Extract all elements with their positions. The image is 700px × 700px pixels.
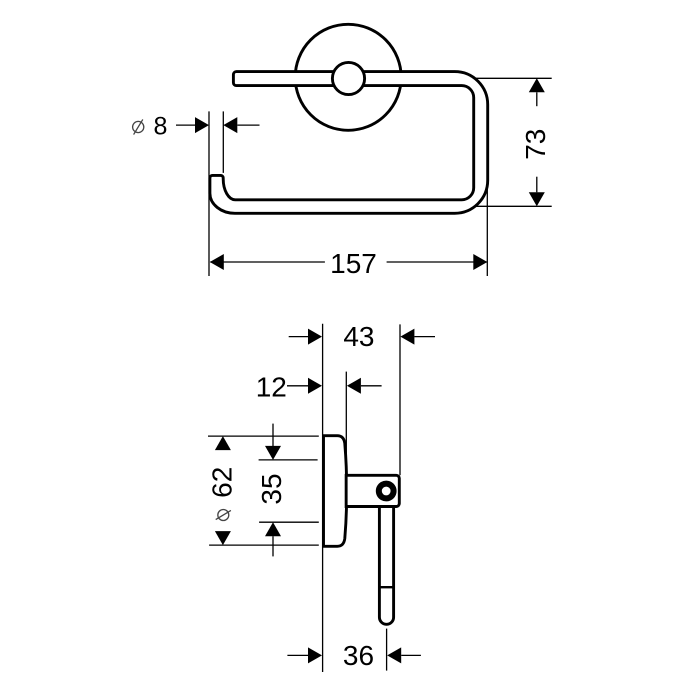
svg-text:73: 73 xyxy=(520,129,551,160)
dim line left segment xyxy=(210,261,325,263)
dimension 36 xyxy=(287,629,421,672)
left arrow xyxy=(210,254,224,270)
up arrow xyxy=(215,436,231,450)
roll holder rod (side view) xyxy=(379,507,393,625)
bottom arrow xyxy=(529,192,545,206)
bottom arrow (outside, pointing up) xyxy=(265,522,281,536)
pivot small circle xyxy=(332,62,364,94)
holder tube outline xyxy=(210,72,488,214)
ø symbol rotated xyxy=(218,510,229,521)
top extension line xyxy=(476,77,552,79)
bracket arm (side view) xyxy=(346,475,399,506)
down arrow xyxy=(215,531,231,545)
dimension 73 xyxy=(474,78,552,206)
top arrow xyxy=(529,78,545,92)
bottom extension line xyxy=(474,205,552,207)
dimension ø62 xyxy=(207,436,319,545)
extension line right of tube end (ø8) xyxy=(222,111,224,172)
right arrow xyxy=(473,254,487,270)
dimension 12 xyxy=(256,371,382,402)
rod joint line xyxy=(379,586,393,588)
rod centre extension line xyxy=(386,629,388,671)
leader line xyxy=(176,124,196,126)
line B top xyxy=(259,459,318,461)
svg-text:43: 43 xyxy=(343,321,374,352)
svg-text:12: 12 xyxy=(256,371,287,402)
top arrow (outside, pointing down) xyxy=(272,424,274,446)
wall line extension (left, long) xyxy=(322,324,324,672)
dimension 157 xyxy=(210,185,488,279)
dimension 35 xyxy=(256,424,319,557)
line A top xyxy=(208,435,319,437)
extension line bracket right xyxy=(399,324,401,475)
dimension ø8 xyxy=(133,112,260,140)
extension line left (ø8 / 157) xyxy=(208,111,210,276)
dimension 43 xyxy=(289,321,435,352)
svg-text:8: 8 xyxy=(154,112,168,140)
line D bottom xyxy=(209,544,319,546)
ø symbol xyxy=(133,121,144,132)
svg-text:35: 35 xyxy=(256,473,287,504)
svg-text:157: 157 xyxy=(330,248,377,279)
left arrow xyxy=(195,117,209,133)
line C bottom xyxy=(259,521,319,523)
wall plate (side profile) xyxy=(324,436,347,547)
pivot ring xyxy=(379,484,394,499)
right extension line xyxy=(486,185,488,276)
right arrow xyxy=(223,117,237,133)
wall plate circle xyxy=(295,24,401,130)
right tail xyxy=(237,124,259,126)
dim line right segment xyxy=(387,261,487,263)
svg-text:62: 62 xyxy=(207,467,238,498)
svg-text:36: 36 xyxy=(343,640,374,671)
extension line plate front xyxy=(345,372,347,476)
